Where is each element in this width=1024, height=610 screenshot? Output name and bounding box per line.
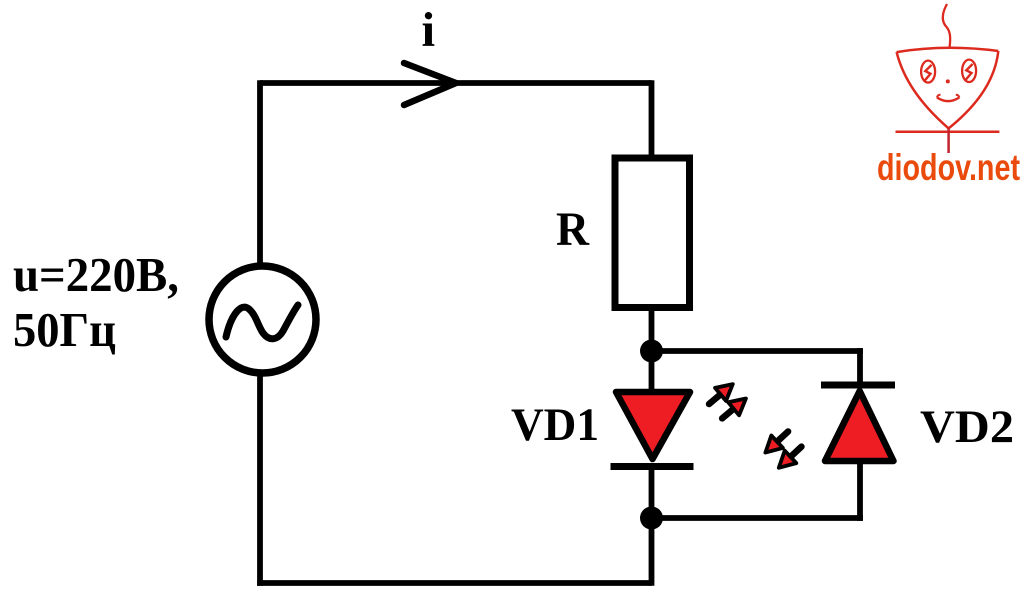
svg-text:diodov.net: diodov.net bbox=[877, 147, 1020, 188]
wire: left vertical upper (source top lead) bbox=[257, 80, 263, 267]
logo mascot smile right hook bbox=[956, 95, 960, 98]
svg-text:50Гц: 50Гц bbox=[13, 302, 116, 357]
logo mascot head top edge bbox=[897, 48, 999, 52]
light emission arrow 3 (from VD2, down-left) bbox=[760, 425, 794, 459]
logo mascot smile bbox=[937, 98, 959, 102]
wire: node A to VD2 branch (top) bbox=[652, 348, 863, 354]
wire: VD1 cathode to node B bbox=[649, 465, 655, 518]
resistor R body bbox=[615, 158, 690, 308]
wire: VD2 branch right vertical lower bbox=[857, 462, 863, 521]
LED VD2 triangle (anode up) bbox=[825, 391, 894, 461]
wire: top horizontal from source branch to resistor branch bbox=[260, 80, 652, 86]
svg-text:u=220В,: u=220В, bbox=[13, 247, 179, 302]
svg-text:i: i bbox=[422, 2, 436, 57]
wire: node A to VD1 anode bbox=[649, 351, 655, 390]
node B junction dot bbox=[640, 507, 663, 530]
logo mascot hair curl bbox=[943, 4, 950, 48]
light emission arrow 4 (from VD2, down-left) bbox=[773, 440, 807, 474]
LED VD1 cathode bar bbox=[611, 463, 694, 470]
svg-text:VD2: VD2 bbox=[920, 401, 1014, 453]
light emission arrow 2 (from VD1, up-right) bbox=[717, 392, 752, 425]
wire: bottom horizontal bbox=[257, 580, 651, 586]
svg-text:R: R bbox=[556, 203, 590, 256]
logo mascot left eye bbox=[921, 61, 935, 83]
wire: VD2 branch right vertical upper bbox=[857, 348, 863, 388]
logo mascot smile left hook bbox=[937, 95, 941, 98]
wire: right vertical from top wire to resistor bbox=[649, 80, 655, 158]
logo mascot head left side bbox=[897, 52, 949, 128]
logo mascot left eye lightning bbox=[925, 65, 932, 81]
AC source V1 circle bbox=[209, 266, 316, 373]
wire: node B to VD2 branch (bottom) bbox=[652, 515, 863, 521]
LED VD2 anode bar bbox=[821, 382, 895, 389]
logo mascot lead line bbox=[947, 128, 950, 153]
current arrow on top wire bbox=[404, 63, 456, 105]
wire: left vertical lower (source bottom lead) bbox=[257, 373, 263, 586]
logo mascot cathode bar bbox=[896, 131, 1000, 134]
wire: node B down to bottom wire bbox=[649, 518, 655, 586]
logo mascot right eye lightning bbox=[966, 64, 973, 80]
logo mascot right eye bbox=[962, 60, 976, 82]
AC source sine wave bbox=[226, 305, 298, 339]
light emission arrow 1 (from VD1, up-right) bbox=[704, 378, 739, 411]
logo mascot nose dot bbox=[946, 79, 950, 83]
LED VD1 triangle (anode down) bbox=[616, 392, 690, 459]
logo mascot head right side bbox=[949, 51, 999, 128]
wire: resistor bottom to node A bbox=[649, 308, 655, 351]
node A junction dot bbox=[640, 340, 663, 363]
svg-text:VD1: VD1 bbox=[511, 399, 599, 451]
